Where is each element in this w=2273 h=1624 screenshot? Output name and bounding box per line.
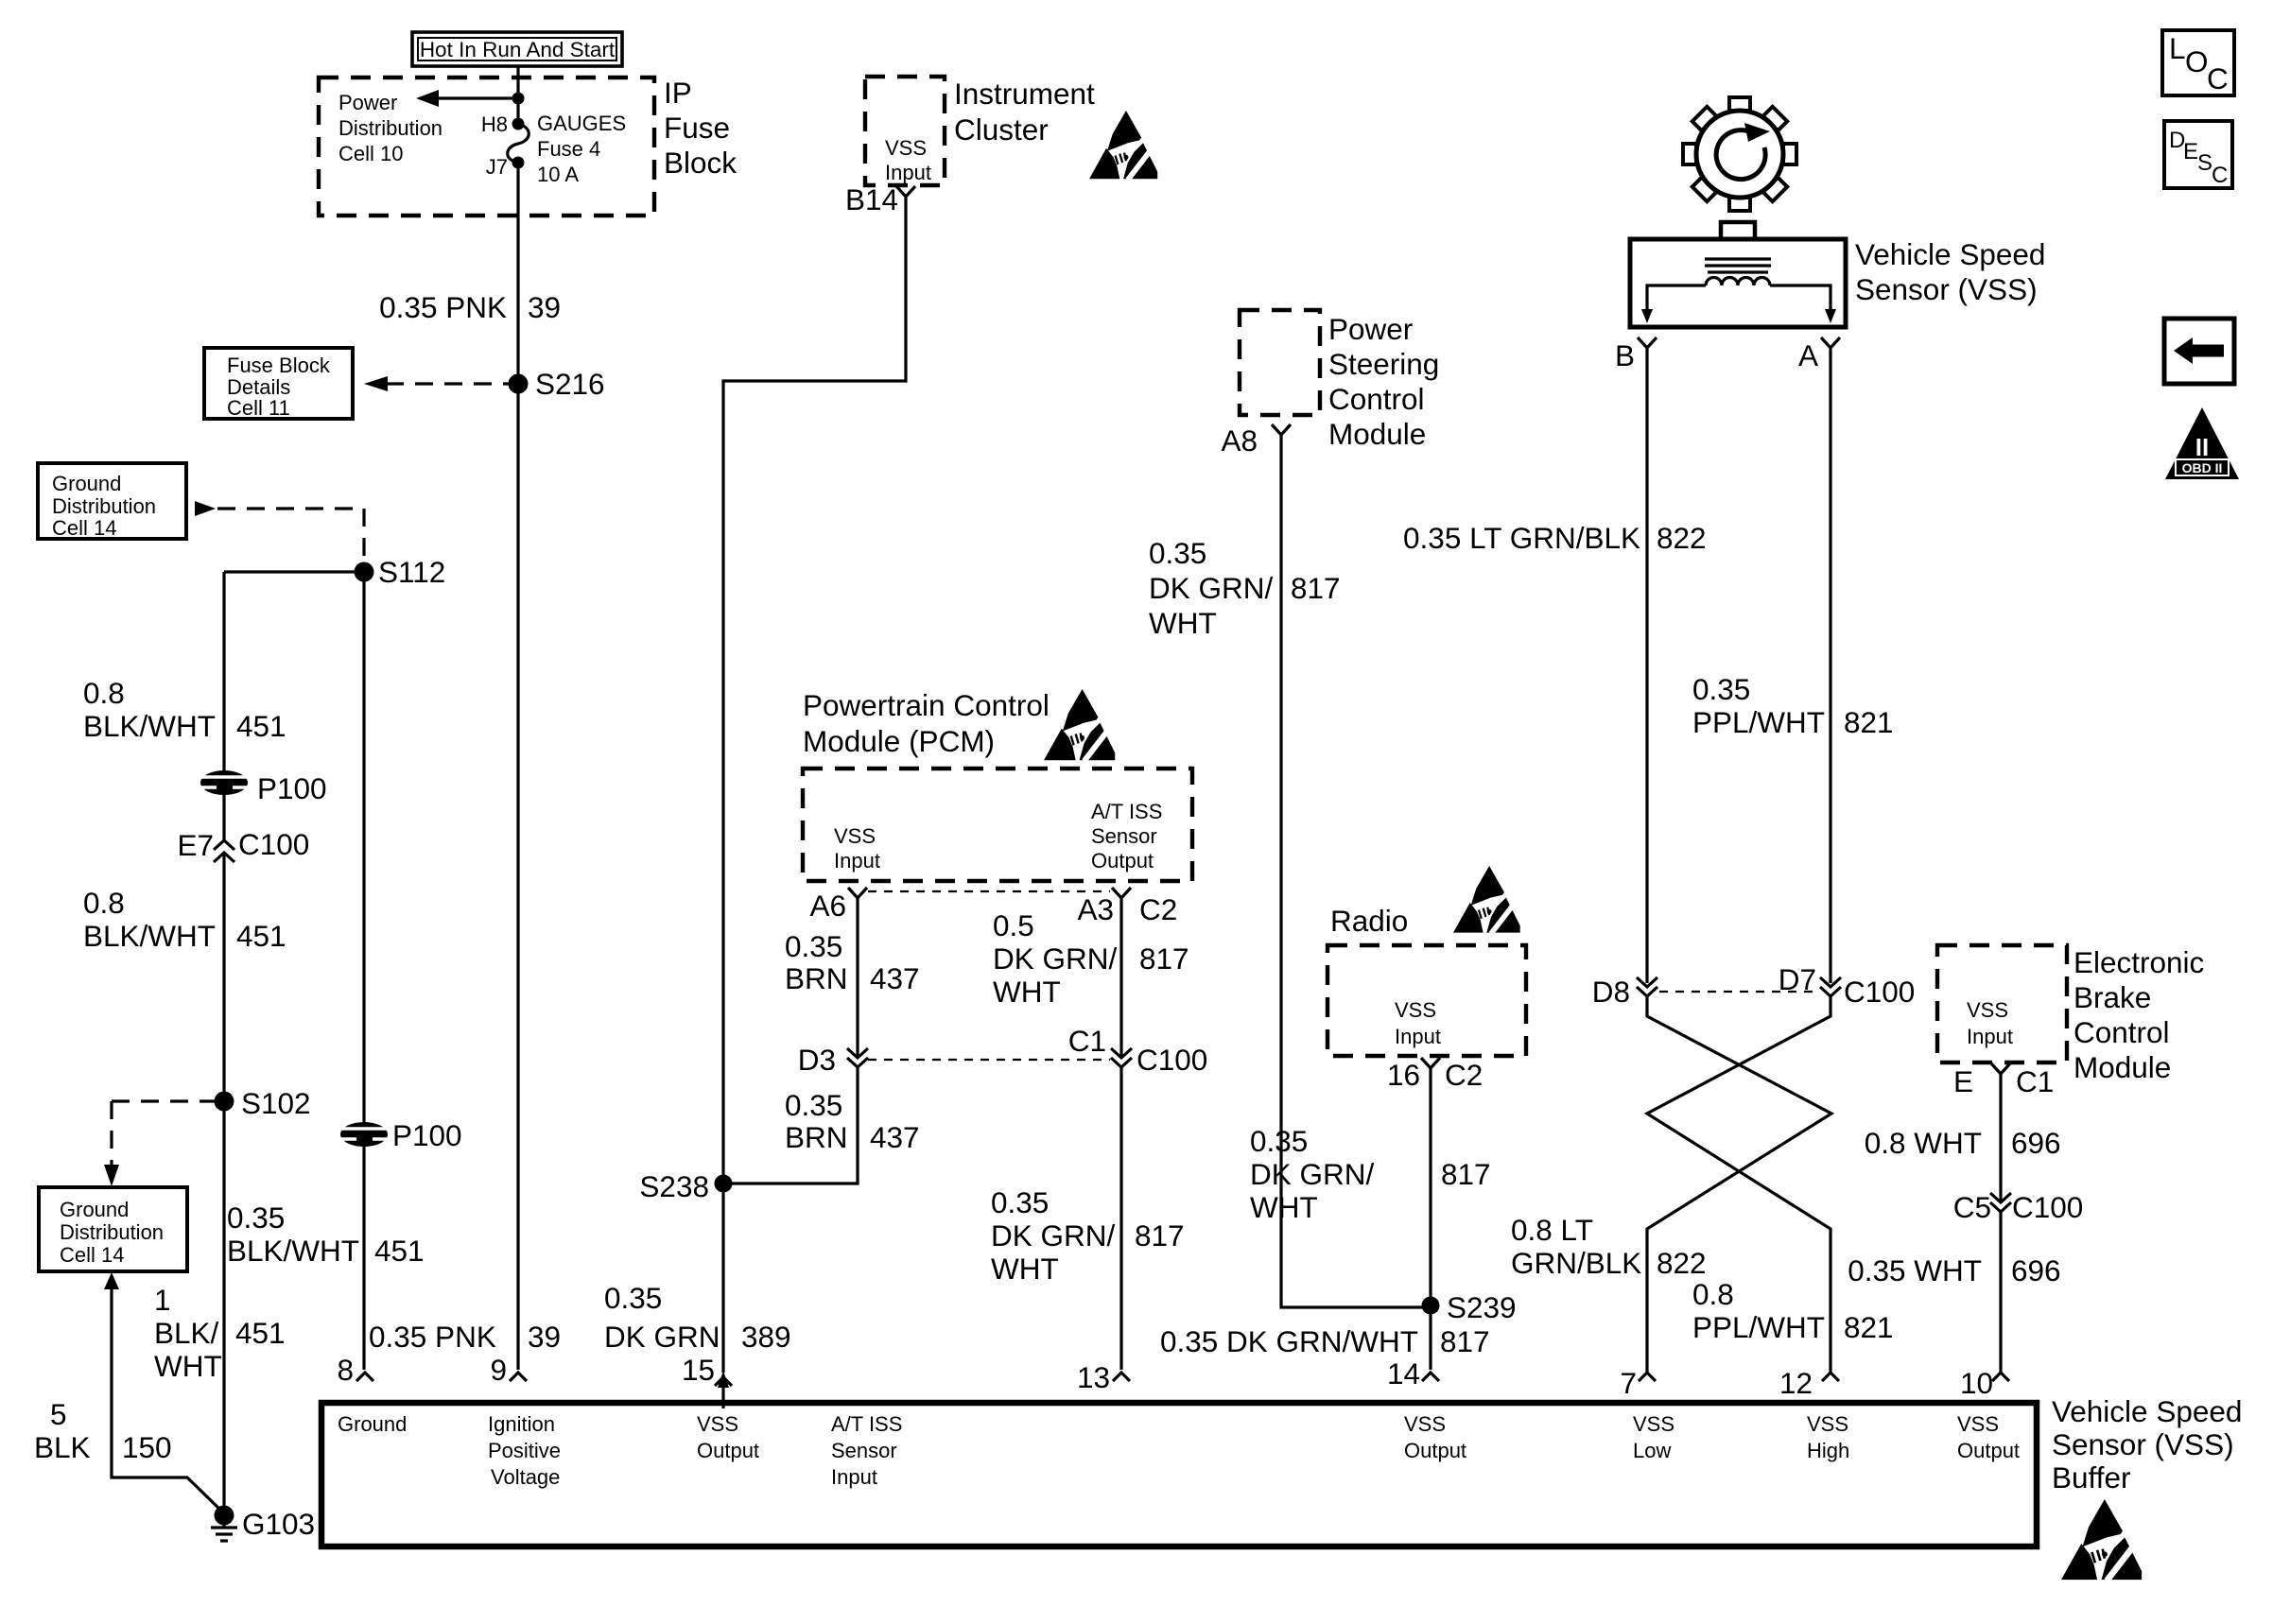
- svg-text:VSS: VSS: [1404, 1412, 1446, 1436]
- svg-text:VSS: VSS: [1633, 1412, 1674, 1436]
- svg-text:Output: Output: [1091, 849, 1154, 872]
- svg-text:696: 696: [2011, 1126, 2061, 1160]
- svg-text:VSS: VSS: [834, 824, 876, 848]
- svg-text:Fuse 4: Fuse 4: [537, 137, 600, 161]
- svg-text:Buffer: Buffer: [2052, 1460, 2130, 1494]
- svg-text:817: 817: [1135, 1218, 1185, 1253]
- svg-text:1: 1: [154, 1283, 171, 1317]
- wire S112 branch left: [224, 570, 364, 573]
- svg-text:C100: C100: [1844, 975, 1915, 1009]
- svg-text:0.5: 0.5: [993, 908, 1034, 942]
- svg-text:PPL/WHT: PPL/WHT: [1692, 705, 1825, 739]
- svg-text:DK GRN/: DK GRN/: [1250, 1157, 1375, 1191]
- pin A3 / C2: [1077, 888, 1177, 926]
- label IP Fuse Block: [664, 76, 737, 180]
- pin 15 with output arrow: [682, 1353, 732, 1408]
- label Power Distribution Cell 10: [338, 91, 442, 165]
- svg-text:WHT: WHT: [1250, 1190, 1318, 1224]
- svg-text:C5: C5: [1953, 1190, 1991, 1224]
- pin E / C1: [1953, 1063, 2054, 1098]
- svg-text:Input: Input: [885, 161, 931, 184]
- pin 12: [1779, 1366, 1839, 1400]
- svg-text:WHT: WHT: [1149, 606, 1217, 640]
- svg-text:8: 8: [337, 1353, 354, 1387]
- svg-text:451: 451: [235, 1316, 286, 1350]
- svg-text:BLK/: BLK/: [154, 1316, 219, 1350]
- svg-text:Instrument: Instrument: [954, 77, 1095, 111]
- svg-text:DK GRN: DK GRN: [604, 1320, 720, 1354]
- wire 0.5 DK GRN/WHT 817 from A3/C2 down: [1119, 898, 1122, 1058]
- svg-text:Cell 14: Cell 14: [52, 516, 116, 540]
- svg-text:Hot In Run And Start: Hot In Run And Start: [420, 38, 616, 61]
- svg-text:Input: Input: [1395, 1025, 1441, 1048]
- wire VSS output down to pin 15: [721, 1183, 724, 1373]
- pin A: [1798, 337, 1840, 372]
- svg-text:VSS: VSS: [1967, 998, 2008, 1022]
- svg-text:S: S: [2197, 150, 2212, 176]
- pin 14: [1387, 1356, 1439, 1391]
- dashed reference arrow Ground Distribution to S112: [195, 501, 216, 516]
- svg-text:Vehicle Speed: Vehicle Speed: [2052, 1394, 2242, 1428]
- svg-text:451: 451: [374, 1234, 425, 1268]
- svg-text:Sensor: Sensor: [1091, 824, 1157, 848]
- svg-text:BLK/WHT: BLK/WHT: [83, 709, 216, 743]
- svg-text:Fuse Block: Fuse Block: [227, 354, 331, 377]
- svg-text:10: 10: [1960, 1366, 1993, 1400]
- svg-text:GRN/BLK: GRN/BLK: [1511, 1246, 1641, 1280]
- svg-text:15: 15: [682, 1353, 715, 1387]
- dashed connector face line A6-C2: [868, 890, 1110, 892]
- svg-text:14: 14: [1387, 1356, 1420, 1391]
- svg-text:A/T ISS: A/T ISS: [1091, 800, 1162, 823]
- pin 9: [490, 1353, 527, 1387]
- svg-text:C2: C2: [1445, 1058, 1483, 1092]
- pin A8: [1221, 423, 1291, 458]
- svg-text:A6: A6: [809, 889, 846, 923]
- Power Steering Control Module dashed box: [1240, 310, 1320, 415]
- svg-text:0.8: 0.8: [1692, 1277, 1734, 1311]
- Instrument Cluster dashed box: [865, 77, 945, 185]
- svg-text:VSS: VSS: [697, 1412, 738, 1436]
- pin 16 / C2: [1387, 1058, 1483, 1092]
- svg-text:A8: A8: [1221, 423, 1258, 458]
- twisted pair crossover wires: [1647, 996, 1831, 1373]
- svg-text:0.8: 0.8: [83, 886, 125, 920]
- svg-text:Low: Low: [1633, 1439, 1671, 1462]
- svg-text:Control: Control: [2073, 1015, 2170, 1049]
- svg-text:O: O: [2185, 44, 2209, 78]
- in-line connector D7 / C100: [1778, 962, 1916, 1009]
- svg-text:821: 821: [1844, 1310, 1894, 1344]
- svg-text:Fuse: Fuse: [664, 111, 730, 145]
- wire 0.35 WHT 696 from C100 to pin 10: [1999, 1212, 2002, 1373]
- splice S112: [355, 562, 374, 582]
- svg-text:451: 451: [236, 919, 286, 953]
- svg-text:Power: Power: [1328, 312, 1413, 346]
- splice S238: [715, 1175, 733, 1193]
- svg-text:Positive: Positive: [488, 1439, 561, 1462]
- Fuse Block Details Cell 11 reference box: [204, 348, 353, 419]
- svg-text:Ground: Ground: [60, 1198, 129, 1221]
- wire 0.35 BRN 437 from A6 to D3: [856, 898, 859, 1058]
- svg-text:C100: C100: [2012, 1190, 2083, 1224]
- wire 0.35 PPL/WHT 821 from A to D7: [1829, 348, 1831, 983]
- svg-text:7: 7: [1620, 1366, 1637, 1400]
- svg-text:0.35: 0.35: [785, 1088, 842, 1122]
- Powertrain Control Module dashed box: [803, 769, 1192, 881]
- svg-text:16: 16: [1387, 1058, 1420, 1092]
- svg-text:Cluster: Cluster: [954, 112, 1049, 147]
- svg-text:0.35: 0.35: [1692, 672, 1750, 706]
- dashed connector face D8-D7: [1659, 991, 1818, 993]
- svg-text:Voltage: Voltage: [491, 1465, 560, 1489]
- svg-text:Ignition: Ignition: [488, 1412, 555, 1436]
- ESD symbol (buffer): [2061, 1499, 2142, 1581]
- EBCM dashed box: [1937, 945, 2067, 1063]
- VSS internal leads: [1647, 285, 1706, 312]
- svg-text:817: 817: [1139, 942, 1189, 976]
- svg-text:0.35: 0.35: [1149, 536, 1206, 570]
- svg-text:S239: S239: [1447, 1290, 1517, 1324]
- svg-text:696: 696: [2011, 1253, 2061, 1287]
- svg-text:C1: C1: [1068, 1024, 1106, 1058]
- dashed reference arrow S216 to Fuse Block Details: [386, 382, 511, 385]
- svg-text:C: C: [2212, 163, 2228, 188]
- svg-text:Powertrain Control: Powertrain Control: [803, 688, 1050, 722]
- svg-text:D3: D3: [798, 1043, 836, 1077]
- svg-text:Radio: Radio: [1330, 904, 1408, 938]
- svg-text:Power: Power: [338, 91, 397, 114]
- svg-text:Input: Input: [834, 849, 880, 872]
- svg-text:OBD II: OBD II: [2182, 460, 2223, 475]
- svg-text:E7: E7: [177, 828, 214, 862]
- svg-text:P100: P100: [392, 1118, 462, 1152]
- svg-text:Input: Input: [831, 1465, 877, 1489]
- fuse F4 GAUGES 10A: [512, 118, 525, 130]
- svg-text:PPL/WHT: PPL/WHT: [1692, 1310, 1825, 1344]
- wire 0.35 DK GRN/WHT 817 radio to S239: [1429, 1068, 1431, 1305]
- ground G103: [215, 1506, 234, 1526]
- svg-text:G103: G103: [242, 1507, 315, 1541]
- in-line connector D3 / C1 C100: [798, 1043, 868, 1077]
- grommet P100 (left wire): [200, 770, 327, 805]
- svg-text:A: A: [1798, 338, 1818, 372]
- svg-text:B: B: [1615, 338, 1635, 372]
- svg-text:389: 389: [741, 1320, 791, 1354]
- VSS tone wheel gear: [1683, 97, 1796, 211]
- svg-text:BRN: BRN: [785, 961, 848, 995]
- svg-text:0.8: 0.8: [83, 676, 125, 710]
- svg-text:Cell 11: Cell 11: [227, 396, 290, 420]
- svg-text:822: 822: [1657, 521, 1707, 555]
- svg-text:0.35 DK GRN/WHT: 0.35 DK GRN/WHT: [1160, 1324, 1418, 1358]
- svg-text:0.35 PNK: 0.35 PNK: [379, 290, 507, 324]
- svg-text:0.35: 0.35: [991, 1185, 1049, 1219]
- svg-text:VSS: VSS: [885, 136, 927, 160]
- svg-text:C100: C100: [238, 827, 309, 861]
- svg-text:S102: S102: [241, 1086, 311, 1120]
- svg-text:B14: B14: [845, 182, 898, 216]
- svg-text:DK GRN/: DK GRN/: [1149, 571, 1274, 605]
- svg-text:IP: IP: [664, 76, 692, 110]
- svg-text:Sensor: Sensor: [831, 1439, 897, 1462]
- svg-text:0.35: 0.35: [785, 929, 842, 963]
- svg-text:E: E: [1953, 1064, 1973, 1098]
- splice S216: [509, 374, 529, 394]
- svg-text:S112: S112: [378, 555, 445, 589]
- svg-text:9: 9: [490, 1353, 507, 1387]
- svg-text:Module (PCM): Module (PCM): [803, 724, 995, 758]
- ESD symbol (radio): [1453, 866, 1520, 934]
- svg-text:E: E: [2183, 139, 2198, 164]
- svg-text:0.35: 0.35: [1250, 1124, 1308, 1158]
- DESC icon: [2164, 121, 2232, 188]
- svg-text:Sensor (VSS): Sensor (VSS): [2052, 1427, 2234, 1461]
- svg-text:437: 437: [870, 961, 920, 995]
- svg-text:817: 817: [1440, 1324, 1490, 1358]
- wire 5 BLK 150 from Ground Distribution to G103: [104, 1272, 119, 1289]
- svg-text:Module: Module: [2073, 1050, 2171, 1084]
- svg-text:A3: A3: [1077, 892, 1114, 926]
- svg-text:L: L: [2169, 31, 2186, 65]
- wire 0.35 BLK/WHT 451 S112 down to pin 8: [362, 572, 365, 1370]
- svg-text:J7: J7: [486, 155, 508, 179]
- svg-text:5: 5: [50, 1397, 67, 1431]
- svg-text:C: C: [2207, 61, 2229, 95]
- Radio dashed box: [1327, 945, 1526, 1056]
- buffer title: [2052, 1394, 2242, 1494]
- svg-text:817: 817: [1441, 1157, 1491, 1191]
- svg-text:Sensor (VSS): Sensor (VSS): [1855, 272, 2038, 306]
- svg-text:VSS: VSS: [1395, 998, 1436, 1022]
- wire: hot feed into fuse block: [516, 66, 519, 124]
- VSS pickup coil: [1706, 278, 1770, 286]
- wire arrow to power distribution cell 10: [437, 96, 518, 99]
- ESD symbol (instrument cluster): [1089, 111, 1157, 180]
- svg-text:Ground: Ground: [338, 1412, 407, 1436]
- pin A6: [809, 888, 867, 923]
- svg-text:C1: C1: [2016, 1064, 2054, 1098]
- svg-text:0.8 LT: 0.8 LT: [1511, 1213, 1593, 1247]
- svg-text:Distribution: Distribution: [60, 1220, 164, 1244]
- svg-text:BLK/WHT: BLK/WHT: [83, 919, 216, 953]
- svg-text:Steering: Steering: [1328, 347, 1439, 381]
- svg-text:12: 12: [1779, 1366, 1813, 1400]
- svg-text:WHT: WHT: [154, 1349, 222, 1383]
- grommet P100 (right wire): [340, 1118, 462, 1152]
- in-line connector C5 / C100: [1953, 1190, 2084, 1224]
- svg-text:437: 437: [870, 1120, 920, 1154]
- splice S239: [1422, 1297, 1440, 1315]
- svg-text:D8: D8: [1592, 975, 1630, 1009]
- svg-text:Output: Output: [1404, 1439, 1466, 1462]
- svg-text:S216: S216: [535, 367, 605, 401]
- svg-text:Electronic: Electronic: [2073, 945, 2204, 979]
- svg-text:H8: H8: [481, 112, 508, 136]
- svg-text:39: 39: [528, 1320, 561, 1354]
- Ground Distribution Cell 14 reference box (upper): [38, 463, 186, 539]
- svg-text:39: 39: [528, 290, 561, 324]
- svg-text:Output: Output: [1957, 1439, 2020, 1462]
- wire 0.35 DK GRN/WHT 817 from C100 to pin 13: [1119, 1067, 1122, 1370]
- svg-text:817: 817: [1291, 571, 1341, 605]
- svg-text:821: 821: [1844, 705, 1894, 739]
- svg-text:S238: S238: [639, 1169, 709, 1203]
- svg-text:Cell 10: Cell 10: [338, 142, 403, 165]
- svg-text:High: High: [1807, 1439, 1849, 1462]
- svg-text:DK GRN/: DK GRN/: [991, 1218, 1116, 1253]
- wire 0.35 LT GRN/BLK 822 from B to D8: [1645, 348, 1648, 983]
- svg-text:II: II: [2195, 433, 2209, 461]
- splice S102: [215, 1092, 234, 1112]
- svg-text:BRN: BRN: [785, 1120, 848, 1154]
- svg-text:Vehicle Speed: Vehicle Speed: [1855, 237, 2045, 271]
- back arrow icon: [2164, 319, 2234, 384]
- pin 8: [337, 1353, 373, 1387]
- svg-text:0.35: 0.35: [604, 1281, 662, 1315]
- svg-text:BLK/WHT: BLK/WHT: [227, 1234, 359, 1268]
- pin 10: [1960, 1366, 2009, 1400]
- VSS core laminations: [1705, 259, 1771, 272]
- svg-text:0.35 PNK: 0.35 PNK: [369, 1320, 496, 1354]
- svg-text:0.35 WHT: 0.35 WHT: [1848, 1253, 1982, 1287]
- in-line connector E7 C100: [177, 827, 309, 862]
- svg-text:Input: Input: [1967, 1025, 2013, 1048]
- svg-text:Brake: Brake: [2073, 980, 2151, 1014]
- LOC icon: [2162, 30, 2234, 95]
- svg-text:VSS: VSS: [1807, 1412, 1848, 1436]
- wire 0.35 PNK 39 from S216 down to buffer pin 9: [516, 384, 519, 1370]
- Hot In Run And Start box: [412, 32, 622, 66]
- svg-text:451: 451: [236, 709, 286, 743]
- svg-text:C100: C100: [1136, 1043, 1207, 1077]
- ESD symbol (PCM): [1044, 689, 1115, 761]
- svg-text:Module: Module: [1328, 417, 1426, 451]
- wire 0.8 BLK/WHT 451 to S102: [222, 853, 225, 1515]
- svg-text:0.8 WHT: 0.8 WHT: [1865, 1126, 1982, 1160]
- node: power distribution tap: [512, 93, 525, 105]
- svg-text:150: 150: [122, 1430, 172, 1464]
- in-line connector D8: [1592, 975, 1657, 1009]
- pin B14: [845, 182, 915, 216]
- svg-text:Distribution: Distribution: [52, 494, 156, 518]
- svg-text:A/T ISS: A/T ISS: [831, 1412, 902, 1436]
- svg-text:BLK: BLK: [34, 1430, 91, 1464]
- svg-text:GAUGES: GAUGES: [537, 112, 626, 135]
- svg-text:0.35 LT GRN/BLK: 0.35 LT GRN/BLK: [1403, 521, 1640, 555]
- svg-text:VSS: VSS: [1957, 1412, 1999, 1436]
- wire 0.8 WHT 696 from E to C5: [1999, 1074, 2002, 1202]
- VSS body: [1721, 222, 1755, 239]
- svg-text:0.35: 0.35: [227, 1201, 285, 1235]
- svg-text:P100: P100: [257, 771, 327, 805]
- svg-text:10 A: 10 A: [537, 163, 579, 186]
- dashed reference arrow S102 to Ground Distribution Cell 14: [112, 1099, 216, 1102]
- wire 0.35 BRN 437 from D3 to S238: [723, 1067, 858, 1183]
- svg-text:Ground: Ground: [52, 472, 121, 495]
- pin 7: [1620, 1366, 1656, 1400]
- pin B: [1615, 337, 1657, 372]
- svg-text:Cell 14: Cell 14: [60, 1243, 124, 1267]
- svg-text:WHT: WHT: [993, 975, 1061, 1009]
- svg-text:Output: Output: [697, 1439, 759, 1462]
- wire 0.35 DK GRN/WHT 817 from A8 to S239: [1281, 435, 1431, 1307]
- pin 13: [1077, 1360, 1130, 1394]
- svg-text:822: 822: [1657, 1246, 1707, 1280]
- svg-text:13: 13: [1077, 1360, 1110, 1394]
- OBD II icon: [2165, 407, 2239, 479]
- svg-text:Control: Control: [1328, 382, 1425, 416]
- svg-text:WHT: WHT: [991, 1252, 1059, 1286]
- wire 0.35 PNK 39 from fuse J7 down to S216: [516, 163, 519, 384]
- wire 0.8 BLK/WHT 451 left branch down: [222, 572, 225, 840]
- IP fuse block dashed box: [319, 78, 654, 216]
- Ground Distribution Cell 14 reference box (lower): [39, 1187, 187, 1271]
- wire to pin 14: [1429, 1305, 1431, 1370]
- svg-text:DK GRN/: DK GRN/: [993, 942, 1118, 976]
- svg-text:Block: Block: [664, 146, 737, 180]
- svg-text:C2: C2: [1139, 892, 1177, 926]
- wire 0.35 DK GRN 389 from B14 to S238: [723, 197, 906, 1183]
- svg-text:Distribution: Distribution: [338, 116, 442, 140]
